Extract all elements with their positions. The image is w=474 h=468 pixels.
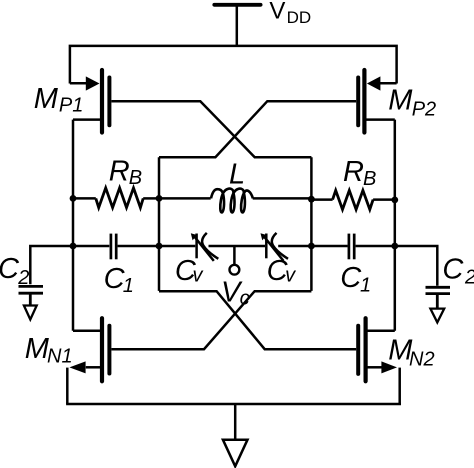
wire MN1 gate cross-coupled to right tank node	[112, 291, 312, 349]
svg-text:N1: N1	[47, 346, 73, 368]
terminal Vc	[230, 265, 240, 275]
capacitor C1 left	[111, 234, 116, 260]
wire C1 right to right node	[356, 245, 395, 248]
svg-text:1: 1	[360, 274, 371, 296]
wire inner tank right vertical	[310, 157, 313, 291]
capacitor C2 left	[19, 286, 44, 305]
power VDD symbol	[214, 5, 260, 46]
ground at C2 left	[24, 306, 37, 320]
wire tank right to C1 right	[311, 245, 347, 248]
label Cv left	[175, 255, 204, 287]
label L	[229, 158, 245, 190]
wire C2 right branch	[395, 246, 438, 286]
label MP2	[388, 85, 436, 121]
wire MN2 source	[367, 366, 382, 369]
wire top supply rail	[70, 46, 397, 84]
wire MN1 source to ground rail	[66, 368, 69, 404]
svg-text:1: 1	[123, 275, 134, 297]
transistor MN1	[69, 318, 109, 381]
label Vc	[221, 276, 250, 309]
svg-text:M: M	[34, 83, 59, 115]
label C1 right	[340, 262, 371, 296]
ground at C2 right	[430, 309, 444, 323]
wire C2 left branch	[30, 246, 73, 284]
wire MP2 source stub	[379, 82, 396, 85]
wire MN2 drain	[366, 329, 395, 332]
junction left tank node at C1/Cv	[156, 243, 163, 250]
wire MP2 gate cross-coupled to left tank node	[159, 101, 356, 157]
junction left output node at RB1	[70, 195, 77, 202]
svg-text:R: R	[343, 156, 364, 188]
svg-text:N2: N2	[409, 348, 435, 370]
svg-text:P2: P2	[412, 98, 436, 120]
svg-text:C: C	[442, 253, 464, 285]
wire RB1 left lead	[73, 197, 96, 200]
junction left tank node at RB1	[156, 195, 163, 202]
junction right tank node at RB2	[308, 196, 315, 203]
label VDD	[269, 0, 311, 27]
label MN2	[388, 335, 434, 371]
inductor L	[211, 189, 253, 213]
wire inductor left lead	[159, 197, 211, 200]
wire MP1 drain	[73, 118, 101, 121]
wire MP2 drain	[366, 118, 395, 121]
wire MP1 source stub	[70, 82, 87, 85]
ground main	[223, 440, 248, 467]
junction right output node at RB2	[391, 197, 398, 204]
label C2 right	[442, 253, 474, 288]
svg-text:C: C	[0, 253, 20, 285]
wire Vc tap	[233, 246, 236, 265]
label C2 left	[0, 253, 29, 289]
wire RB2 right lead	[373, 198, 395, 201]
wire ground tap	[234, 404, 237, 440]
svg-text:L: L	[229, 158, 245, 190]
label MN1	[25, 333, 73, 368]
svg-text:R: R	[109, 155, 130, 187]
label Cv right	[267, 255, 297, 287]
transistor MP1	[86, 70, 110, 133]
svg-text:V: V	[269, 0, 285, 24]
wire tank to varactor left	[159, 245, 195, 248]
wire MP1 gate cross-coupled to right tank node	[112, 101, 312, 157]
wire between varactors	[209, 245, 266, 248]
wire bottom ground rail	[66, 403, 401, 406]
svg-text:B: B	[363, 168, 376, 190]
transistor MP2	[358, 70, 380, 133]
wire MN2 source to ground rail	[398, 368, 401, 404]
wire RB1 right lead	[143, 197, 159, 200]
label RB1	[109, 155, 142, 189]
label RB2	[343, 156, 376, 190]
label C1 left	[104, 263, 134, 297]
wire MN1 source	[86, 366, 101, 369]
svg-text:M: M	[388, 85, 413, 117]
wire MN1 drain	[73, 329, 101, 332]
transistor MN2	[358, 318, 397, 381]
svg-text:2: 2	[17, 267, 29, 289]
wire inductor right lead	[253, 197, 312, 200]
wire inner tank left vertical	[158, 157, 161, 291]
svg-text:C: C	[340, 262, 362, 294]
resistor RB1	[96, 188, 143, 208]
wire varactor right to tank right	[278, 245, 311, 248]
capacitor C2 right	[426, 287, 451, 308]
svg-text:P1: P1	[59, 95, 83, 117]
resistor RB2	[333, 190, 374, 209]
svg-text:v: v	[285, 265, 296, 287]
wire C1 left to tank	[118, 245, 159, 248]
svg-text:v: v	[193, 265, 204, 287]
wire MN2 gate cross-coupled to left tank node	[159, 291, 356, 349]
wire right output node vertical	[394, 120, 397, 331]
wire RB2 left lead	[311, 198, 332, 201]
junction right tank node at C1/Cv	[308, 243, 315, 250]
capacitor C1 right	[349, 234, 354, 260]
svg-text:2: 2	[464, 266, 474, 288]
wire left node to C1 left	[73, 245, 109, 248]
svg-text:DD: DD	[287, 8, 312, 27]
wire left output node vertical	[72, 120, 75, 331]
varactor Cv right	[261, 233, 289, 261]
svg-text:B: B	[129, 167, 142, 189]
varactor Cv left	[191, 233, 219, 261]
label MP1	[34, 83, 84, 117]
junction right output node at C1/C2	[391, 243, 398, 250]
junction left output node at C1/C2	[70, 243, 77, 250]
